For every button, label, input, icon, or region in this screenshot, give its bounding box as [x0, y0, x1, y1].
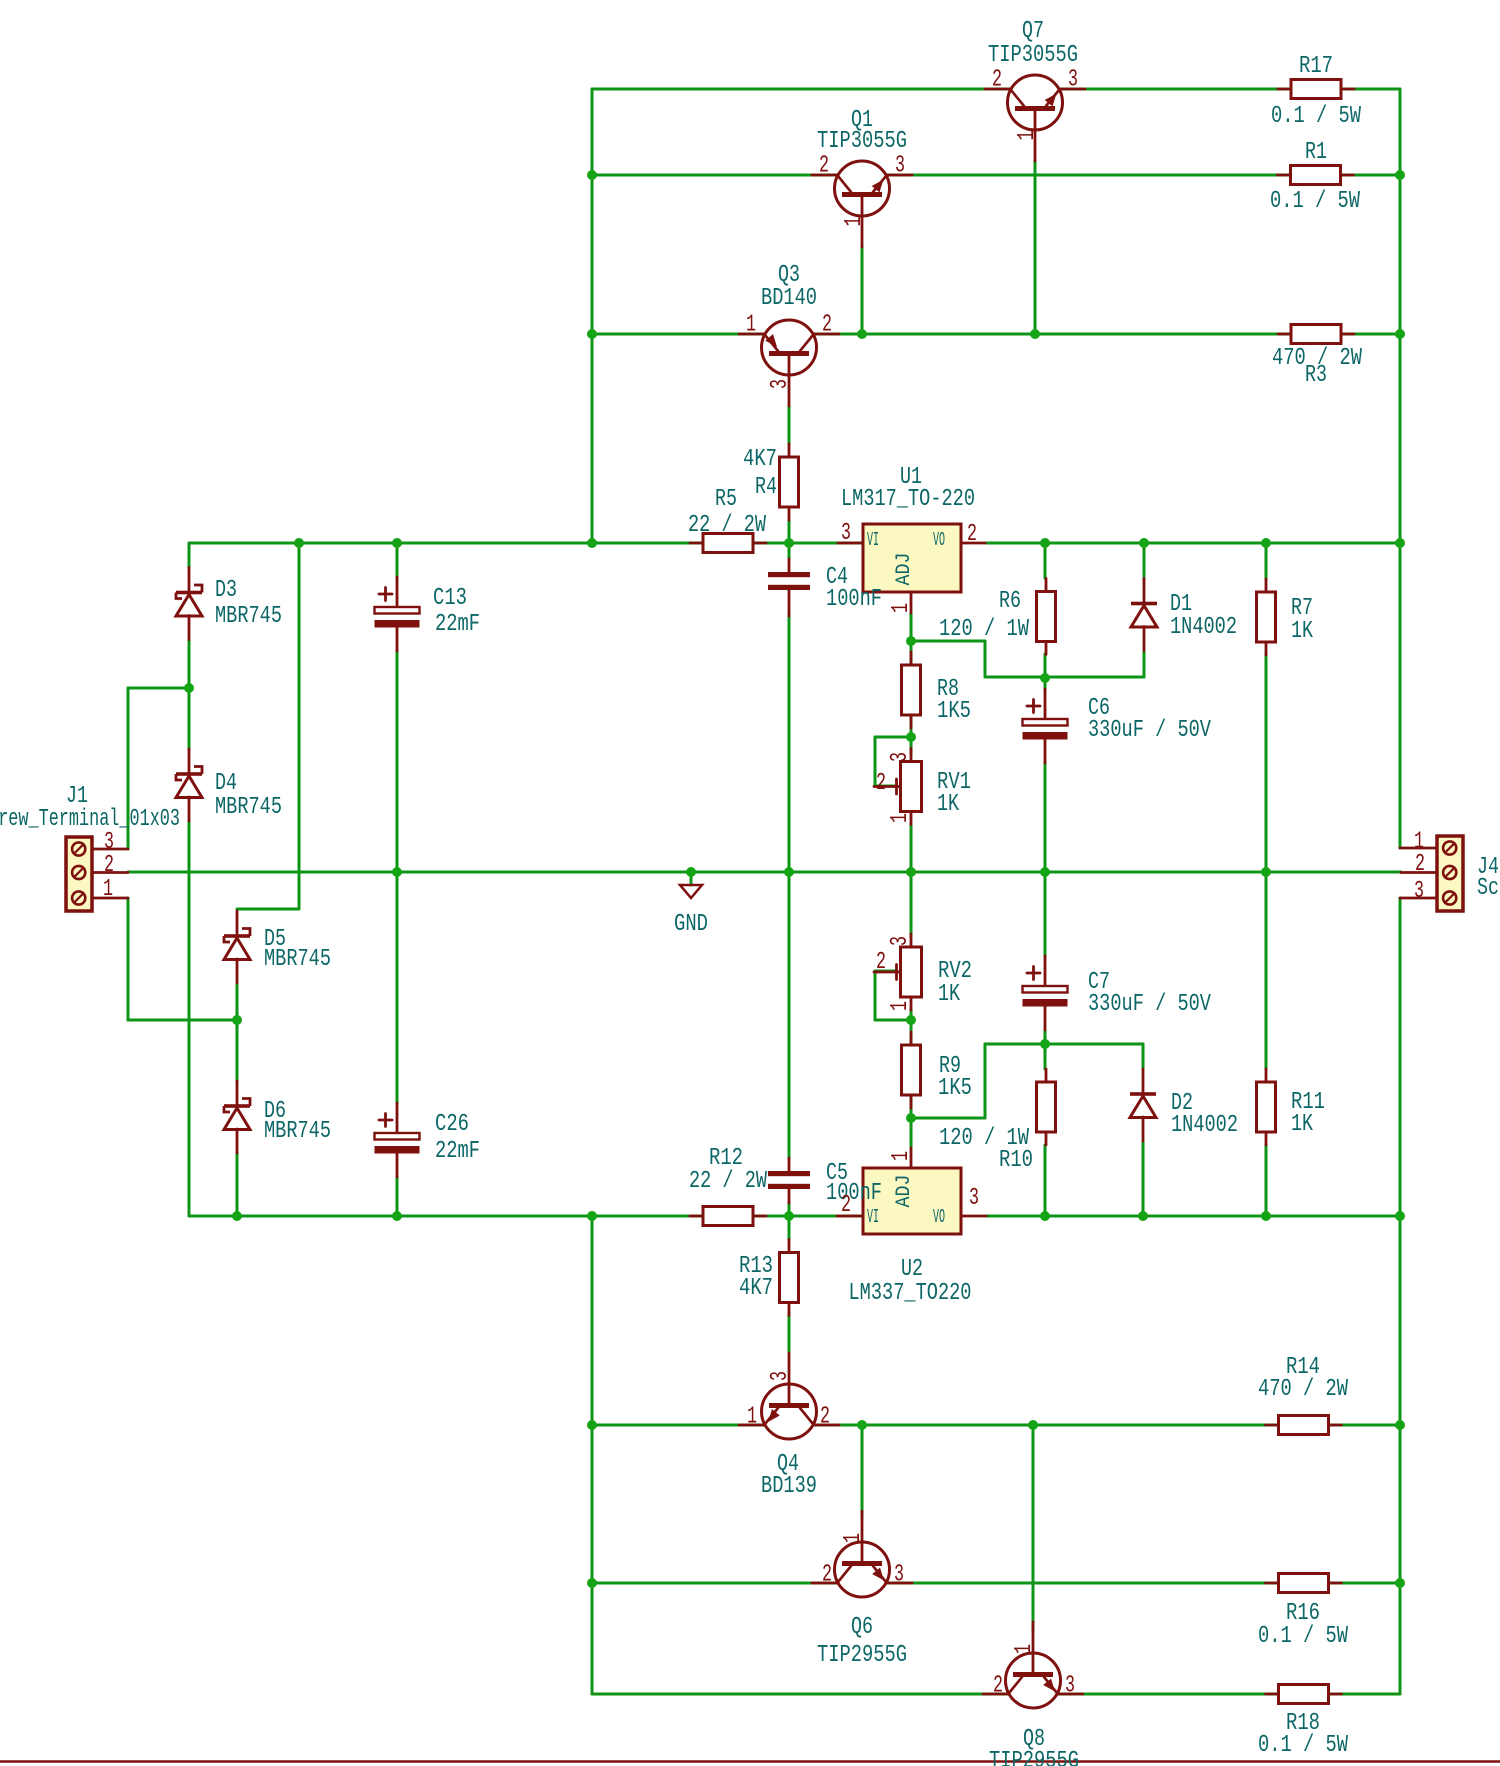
svg-text:2: 2 [967, 521, 977, 548]
svg-text:TIP3055G: TIP3055G [988, 42, 1078, 69]
svg-text:2: 2 [992, 67, 1002, 94]
svg-text:1: 1 [747, 1404, 757, 1431]
svg-text:3: 3 [969, 1185, 979, 1212]
svg-text:2: 2 [876, 949, 886, 976]
svg-text:0.1 / 5W: 0.1 / 5W [1258, 1732, 1348, 1759]
svg-text:BD140: BD140 [761, 285, 817, 312]
svg-text:MBR745: MBR745 [264, 1118, 331, 1145]
svg-text:R6: R6 [999, 588, 1021, 615]
svg-text:GND: GND [674, 911, 708, 938]
svg-text:2: 2 [822, 1562, 832, 1589]
svg-text:3: 3 [887, 752, 914, 762]
svg-text:C13: C13 [433, 585, 467, 612]
svg-text:R1: R1 [1305, 139, 1327, 166]
svg-text:1: 1 [103, 876, 113, 903]
svg-text:1K: 1K [938, 981, 960, 1008]
svg-text:1: 1 [887, 1001, 914, 1011]
svg-text:3: 3 [894, 1562, 904, 1589]
svg-text:0.1 / 5W: 0.1 / 5W [1270, 188, 1360, 215]
svg-text:R10: R10 [999, 1147, 1033, 1174]
svg-text:1K5: 1K5 [938, 1075, 972, 1102]
svg-text:TIP2955G: TIP2955G [989, 1748, 1079, 1766]
svg-text:VO: VO [933, 529, 945, 551]
svg-text:ADJ: ADJ [893, 1175, 916, 1208]
svg-text:1K: 1K [1291, 1111, 1313, 1138]
svg-text:ADJ: ADJ [893, 553, 916, 586]
svg-text:R4: R4 [755, 474, 777, 501]
svg-text:3: 3 [1414, 878, 1424, 905]
svg-text:3: 3 [767, 1371, 794, 1381]
svg-text:100nF: 100nF [826, 1180, 882, 1207]
svg-text:VO: VO [933, 1206, 945, 1228]
svg-text:1K5: 1K5 [937, 698, 971, 725]
svg-text:2: 2 [104, 852, 114, 879]
svg-text:3: 3 [767, 379, 794, 389]
svg-text:1: 1 [840, 1533, 867, 1543]
svg-text:2: 2 [993, 1673, 1003, 1700]
svg-text:120 / 1W: 120 / 1W [939, 616, 1029, 643]
svg-text:LM337_TO220: LM337_TO220 [849, 1280, 972, 1307]
svg-text:3: 3 [895, 153, 905, 180]
svg-text:D3: D3 [215, 577, 237, 604]
svg-text:4K7: 4K7 [739, 1275, 773, 1302]
svg-text:2: 2 [841, 1192, 851, 1219]
svg-text:1: 1 [1014, 131, 1041, 141]
svg-text:2: 2 [819, 153, 829, 180]
svg-text:1: 1 [887, 813, 914, 823]
svg-text:MBR745: MBR745 [264, 946, 331, 973]
svg-text:1N4002: 1N4002 [1171, 1112, 1238, 1139]
svg-text:330uF / 50V: 330uF / 50V [1088, 717, 1211, 744]
svg-text:22 / 2W: 22 / 2W [688, 512, 766, 539]
svg-text:0.1 / 5W: 0.1 / 5W [1271, 103, 1361, 130]
svg-text:3: 3 [841, 520, 851, 547]
svg-text:100nF: 100nF [826, 586, 882, 613]
svg-text:22 / 2W: 22 / 2W [689, 1168, 767, 1195]
svg-text:1: 1 [888, 603, 915, 613]
svg-text:22mF: 22mF [435, 1138, 480, 1165]
svg-text:Q7: Q7 [1022, 18, 1044, 45]
svg-text:R17: R17 [1299, 53, 1333, 80]
svg-text:TIP3055G: TIP3055G [817, 128, 907, 155]
svg-text:1K: 1K [1291, 618, 1313, 645]
svg-text:D4: D4 [215, 770, 237, 797]
svg-text:1K: 1K [937, 791, 959, 818]
svg-text:TIP2955G: TIP2955G [817, 1642, 907, 1669]
svg-text:U2: U2 [901, 1256, 923, 1283]
svg-text:1: 1 [888, 1151, 915, 1161]
svg-text:BD139: BD139 [761, 1473, 817, 1500]
svg-text:VI: VI [867, 1206, 879, 1228]
svg-text:MBR745: MBR745 [215, 794, 282, 821]
svg-text:Sc: Sc [1477, 875, 1499, 902]
svg-text:MBR745: MBR745 [215, 603, 282, 630]
svg-text:3: 3 [1068, 67, 1078, 94]
svg-text:2: 2 [822, 312, 832, 339]
svg-text:2: 2 [876, 770, 886, 797]
svg-text:1: 1 [841, 217, 868, 227]
svg-text:1N4002: 1N4002 [1170, 614, 1237, 641]
svg-text:1: 1 [1011, 1644, 1038, 1654]
svg-text:C26: C26 [435, 1111, 469, 1138]
svg-text:0.1 / 5W: 0.1 / 5W [1258, 1623, 1348, 1650]
svg-text:2: 2 [1415, 851, 1425, 878]
svg-text:R3: R3 [1305, 362, 1327, 389]
svg-text:2: 2 [820, 1404, 830, 1431]
svg-text:LM317_TO-220: LM317_TO-220 [841, 486, 975, 513]
svg-text:470 / 2W: 470 / 2W [1258, 1376, 1348, 1403]
svg-text:Q6: Q6 [851, 1614, 873, 1641]
svg-text:4K7: 4K7 [743, 446, 777, 473]
svg-text:VI: VI [867, 529, 879, 551]
svg-text:Screw_Terminal_01x03: Screw_Terminal_01x03 [0, 806, 180, 833]
svg-text:3: 3 [1065, 1673, 1075, 1700]
svg-text:22mF: 22mF [435, 611, 480, 638]
svg-text:1: 1 [746, 312, 756, 339]
svg-text:R5: R5 [715, 486, 737, 513]
svg-text:3: 3 [887, 936, 914, 946]
svg-text:330uF / 50V: 330uF / 50V [1088, 991, 1211, 1018]
